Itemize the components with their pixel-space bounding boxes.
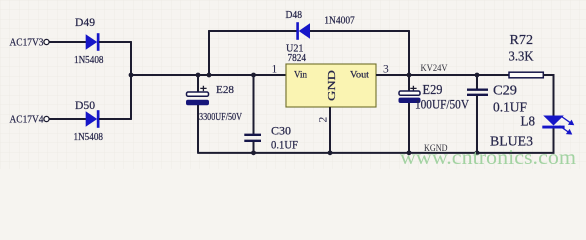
junction dot C30 tap xyxy=(251,73,256,78)
svg-text:AC17V4: AC17V4 xyxy=(10,114,44,126)
wire AC17V3 to D49 anode xyxy=(49,41,86,43)
wire top bypass right xyxy=(310,30,410,32)
svg-text:3.3K: 3.3K xyxy=(509,50,534,65)
svg-text:0.1UF: 0.1UF xyxy=(271,138,298,152)
svg-text:AC17V3: AC17V3 xyxy=(10,37,44,49)
LED L8 emission arrows xyxy=(560,117,574,134)
capacitor E29 xyxy=(399,86,421,103)
svg-text:GND: GND xyxy=(326,70,338,101)
svg-text:Vout: Vout xyxy=(350,71,369,81)
node AC17V4 terminal xyxy=(44,116,49,121)
wire E29 bottom lead xyxy=(408,103,410,152)
diode D50 xyxy=(86,110,100,128)
junction dot pin2 ground xyxy=(328,150,333,155)
svg-text:1N5408: 1N5408 xyxy=(74,131,104,143)
svg-text:0.1UF: 0.1UF xyxy=(493,100,527,115)
svg-text:D50: D50 xyxy=(75,98,95,112)
wire D48 right riser xyxy=(408,31,410,75)
svg-text:E29: E29 xyxy=(423,82,443,97)
svg-text:1N5408: 1N5408 xyxy=(74,54,104,66)
wire E28 top lead xyxy=(197,75,199,92)
junction dot C30 ground xyxy=(251,150,256,155)
svg-text:2: 2 xyxy=(318,117,330,123)
capacitor C29 xyxy=(467,90,488,95)
wire diode-junction vertical xyxy=(130,42,132,119)
resistor R72 xyxy=(509,72,543,78)
svg-text:D49: D49 xyxy=(75,15,95,29)
wire C30 top lead xyxy=(253,75,255,134)
svg-text:R72: R72 xyxy=(510,33,534,48)
junction dot E28 tap xyxy=(196,73,201,78)
wire top bypass left xyxy=(208,30,297,32)
regulator U21 body xyxy=(286,64,376,107)
wire input rail to U21 Vin xyxy=(131,74,286,76)
wire E29 top lead xyxy=(408,75,410,91)
junction dot C29 ground xyxy=(475,150,480,155)
wire C30 bottom lead xyxy=(253,142,255,153)
diode D48 xyxy=(296,22,310,40)
svg-text:L8: L8 xyxy=(521,115,536,130)
wire ground rail xyxy=(197,128,553,153)
diode D49 xyxy=(86,33,100,51)
svg-text:Vin: Vin xyxy=(294,71,307,81)
wire D49 cathode to junction xyxy=(99,41,132,43)
svg-text:7824: 7824 xyxy=(288,53,307,64)
junction dot at rectifier output xyxy=(129,73,134,78)
wire U21 pin2 to ground rail xyxy=(329,107,331,152)
wire U21 Vout to output rail xyxy=(376,74,510,76)
svg-text:1N4007: 1N4007 xyxy=(324,15,355,27)
svg-text:www.cntronics.com: www.cntronics.com xyxy=(400,145,576,169)
wire E28 bottom lead xyxy=(197,105,199,153)
svg-text:C29: C29 xyxy=(493,84,517,99)
wire D50 cathode to junction xyxy=(99,118,132,120)
capacitor C30 xyxy=(244,135,261,141)
junction dot E29 ground xyxy=(407,150,412,155)
junction dot D48 riser tap xyxy=(207,73,212,78)
wire C29 top lead xyxy=(476,75,478,89)
svg-text:C30: C30 xyxy=(271,124,291,138)
node AC17V3 terminal xyxy=(44,39,49,44)
wire AC17V4 to D50 anode xyxy=(49,118,86,120)
svg-text:3300UF/50V: 3300UF/50V xyxy=(199,112,243,123)
junction dot C29 tap xyxy=(475,73,480,78)
svg-text:3: 3 xyxy=(383,64,389,76)
svg-text:E28: E28 xyxy=(216,84,234,96)
junction dot E29 tap xyxy=(407,73,412,78)
capacitor E28 xyxy=(186,86,209,106)
wire D48 left riser xyxy=(208,31,210,75)
svg-text:100UF/50V: 100UF/50V xyxy=(415,97,470,112)
wire R72 to LED corner xyxy=(543,75,553,116)
svg-text:1: 1 xyxy=(272,64,278,76)
svg-text:D48: D48 xyxy=(286,9,303,21)
wire C29 bottom lead xyxy=(476,96,478,153)
LED L8 xyxy=(542,116,564,129)
svg-text:KV24V: KV24V xyxy=(421,63,448,73)
